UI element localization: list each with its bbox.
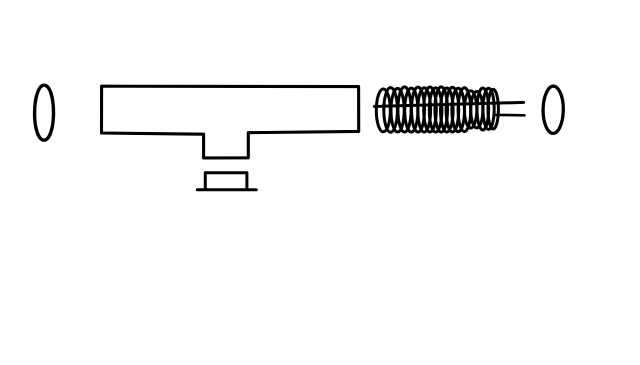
T-shaped block	[102, 86, 359, 158]
left ellipse ring	[35, 85, 54, 140]
coil	[376, 87, 498, 132]
base line	[197, 188, 256, 191]
right ellipse ring	[543, 86, 563, 133]
pedestal	[205, 173, 247, 189]
wire lower lead	[495, 114, 524, 117]
wire axis upper lead	[374, 102, 523, 106]
